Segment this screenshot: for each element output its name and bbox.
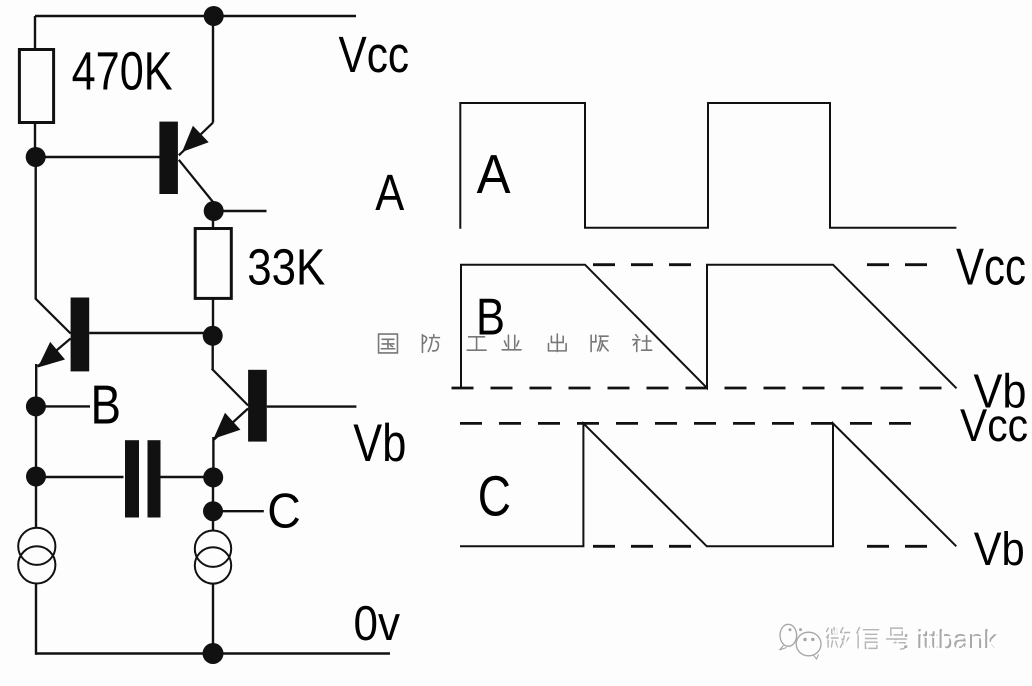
wire node X to Q1 base: [35, 156, 160, 158]
node Z junction dot: [203, 326, 223, 346]
dashed line Vcc level (row B): [593, 263, 707, 266]
watermark char 业: [502, 335, 521, 350]
wire stub node C: [213, 510, 264, 512]
watermark char 社: [633, 335, 652, 352]
wire 0v rail (bottom horizontal): [36, 652, 390, 654]
char 信: [857, 627, 880, 648]
current source I1 (left): [18, 528, 55, 584]
watermark 国防工业出版社: [379, 334, 652, 353]
svg-text:B: B: [91, 374, 122, 436]
current source I2 (right): [195, 531, 231, 584]
svg-text:C: C: [267, 485, 301, 539]
resistor R2 33K body: [195, 229, 231, 299]
wire I1 to 0v rail: [35, 584, 37, 655]
wire capacitor-left node to current source I1: [35, 477, 37, 528]
watermark char 防: [422, 335, 439, 353]
transistor Q1 (PNP): [159, 122, 213, 202]
wire Vcc rail (top horizontal): [35, 15, 356, 17]
dashed line Vb level (row B): [452, 387, 957, 390]
transistor Q2 (NPN): [36, 298, 89, 372]
char 微: [826, 627, 850, 648]
wire C1 right plate to node: [159, 476, 213, 478]
svg-text:33K: 33K: [247, 239, 325, 296]
junction dot on 0v rail: [203, 643, 224, 664]
wire node Z to Q2 base: [89, 332, 213, 334]
wire Q3 base lead to Vb: [267, 405, 357, 407]
wire Q2 emitter to node B: [35, 364, 37, 407]
waveform B trace: [461, 265, 957, 389]
svg-text:470K: 470K: [72, 42, 173, 102]
svg-text:C: C: [478, 465, 511, 529]
svg-text:B: B: [476, 289, 505, 347]
watermark char 工: [467, 337, 486, 350]
dashed line Vb level (row C): [593, 545, 707, 548]
wire node Z to Q3 collector: [211, 336, 213, 370]
junction dot (capacitor left node): [26, 467, 46, 487]
wire R2 bottom to node Z: [212, 298, 214, 336]
wire stub node Y (output A): [214, 210, 267, 212]
svg-text:Vb: Vb: [353, 414, 406, 473]
waveform C trace: [460, 423, 956, 546]
resistor R1 470K body: [19, 50, 53, 123]
watermark char 国: [379, 334, 398, 353]
wire capacitor node to node C: [212, 477, 214, 511]
node C junction dot: [203, 501, 223, 521]
wire R1 bottom to node X: [34, 122, 36, 156]
svg-text:ittbank: ittbank: [919, 626, 1001, 656]
capacitor C1: [125, 440, 161, 517]
svg-text:Vcc: Vcc: [960, 399, 1028, 451]
wire Q3 emitter to capacitor right node: [212, 437, 214, 477]
waveform A trace: [460, 103, 956, 229]
svg-text:A: A: [375, 164, 404, 221]
junction dot on Vcc rail: [204, 6, 224, 26]
wire stub node B: [36, 405, 90, 407]
wechat icon (two chat bubbles): [780, 624, 821, 659]
wire to C1 left plate: [36, 476, 124, 478]
node X junction dot: [26, 147, 46, 167]
dashed line Vcc level (row C): [460, 422, 928, 425]
wire node Y to R2 top: [212, 211, 214, 229]
node B junction dot: [26, 396, 46, 416]
svg-text:A: A: [477, 143, 511, 205]
node Y junction dot: [204, 201, 224, 221]
wire node X to Q2 collector: [35, 156, 37, 300]
wechat id text 微信号: ittbank: [826, 624, 1000, 656]
svg-text::: :: [905, 626, 912, 656]
junction dot (capacitor right node): [203, 467, 223, 487]
transistor Q3 (NPN): [212, 369, 267, 442]
wire Q1 collector to node Y: [212, 201, 214, 212]
svg-text:Vb: Vb: [974, 522, 1025, 575]
wire node B down to capacitor node: [35, 406, 37, 477]
wire Vcc rail to Q1 emitter: [212, 16, 214, 123]
watermark char 出: [548, 334, 566, 351]
svg-text:Vcc: Vcc: [339, 26, 410, 83]
svg-text:0v: 0v: [354, 597, 401, 651]
watermark char 版: [591, 335, 608, 351]
wire I2 to 0v rail: [212, 584, 214, 654]
char 号: [886, 628, 907, 649]
wire node C to current source I2: [212, 511, 214, 531]
svg-text:Vcc: Vcc: [956, 239, 1026, 297]
wire Vcc rail down to R1 top: [34, 16, 36, 50]
